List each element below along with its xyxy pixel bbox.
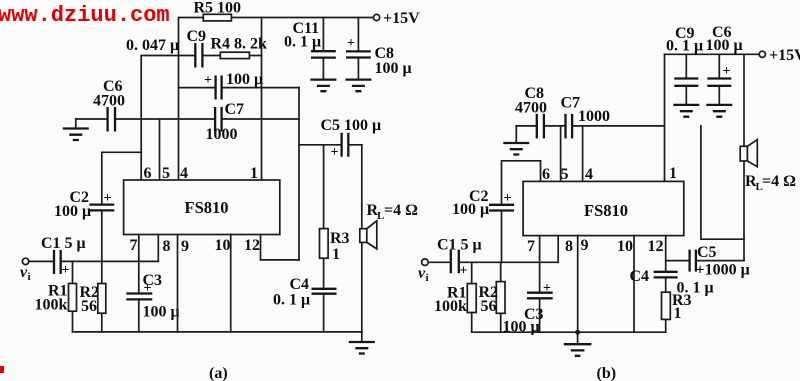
svg-text:10: 10: [617, 238, 633, 255]
wire: C5 output row (a): [299, 144, 362, 146]
svg-text:10: 10: [215, 237, 231, 254]
svg-text:i: i: [426, 272, 429, 284]
svg-text:FS810: FS810: [185, 198, 229, 217]
capacitor C3 (b): [539, 236, 541, 333]
speaker RL (a): [360, 229, 367, 243]
svg-text:+: +: [331, 145, 339, 160]
svg-text:C5: C5: [697, 244, 717, 261]
svg-text:1: 1: [250, 165, 258, 182]
wire: +15V rail (b): [665, 53, 760, 55]
resistor R5: [203, 14, 231, 21]
svg-text:+15V: +15V: [383, 10, 420, 27]
svg-text:5: 5: [561, 166, 569, 183]
capacitor C4 (a): [312, 289, 337, 294]
svg-text:56: 56: [481, 298, 497, 315]
svg-text:C4: C4: [630, 268, 650, 285]
capacitor 100u bootstrap (a): [216, 76, 222, 100]
svg-text:i: i: [28, 271, 31, 283]
svg-text:+: +: [504, 191, 512, 206]
wire: C5 output row (b): [666, 260, 744, 262]
capacitor C3 (a): [138, 235, 140, 332]
wire: pin1 vertical to +15V (b): [664, 54, 666, 181]
svg-text:C5 100 μ: C5 100 μ: [321, 117, 382, 134]
capacitor C5 (a): [342, 133, 349, 157]
capacitor C1 (a): [54, 250, 61, 274]
resistor R4: [220, 52, 249, 58]
svg-text:R5 100: R5 100: [194, 0, 242, 17]
resistor R1 (b): [471, 262, 473, 332]
svg-text:100 μ: 100 μ: [375, 60, 412, 77]
svg-text:1: 1: [332, 246, 340, 263]
ground drop left of C8 (b): [515, 126, 517, 143]
op-amp IC FS810 (a): [124, 180, 280, 235]
wire: pin6 vertical (b): [540, 161, 542, 182]
svg-text:56: 56: [81, 298, 97, 315]
svg-text:4: 4: [180, 165, 188, 182]
wire: C9 row left branch (a): [141, 56, 178, 181]
svg-text:100 μ: 100 μ: [54, 203, 91, 220]
svg-text:9: 9: [181, 238, 189, 255]
resistor R3 (b): [662, 292, 671, 319]
wire: 100u bootstrap row (a): [179, 87, 300, 89]
capacitor C1 (b): [451, 250, 459, 273]
wire: speaker drop (a): [361, 145, 363, 332]
svg-text:1: 1: [669, 165, 677, 182]
wire: ground rail (a): [73, 331, 362, 333]
svg-text:6: 6: [542, 166, 550, 183]
resistor R3 (a): [323, 145, 325, 288]
wire: pin4 vertical (b): [582, 126, 584, 181]
svg-text:4700: 4700: [515, 100, 547, 117]
resistor R2 (b): [500, 262, 502, 332]
ground below C9 (b): [673, 105, 699, 117]
ground below rail (b): [577, 332, 579, 344]
wire: input row (a): [29, 260, 159, 262]
svg-text:7: 7: [527, 238, 535, 255]
svg-text:R3: R3: [330, 230, 350, 247]
svg-text:12: 12: [244, 237, 260, 254]
wire: pin10 to rail (a): [230, 235, 232, 332]
svg-text:0. 1 μ: 0. 1 μ: [273, 292, 310, 309]
svg-text:100k: 100k: [434, 298, 467, 315]
capacitor C4 (b): [654, 272, 678, 278]
wire: input row (b): [429, 261, 558, 263]
svg-text:100 μ: 100 μ: [452, 201, 489, 218]
wire: +15V rail (a): [179, 17, 374, 19]
wire: C8/C7 row (b): [516, 125, 664, 127]
resistor R2 (a): [101, 261, 103, 332]
svg-text:C9: C9: [187, 28, 207, 45]
wire: pin8 drop (a): [157, 235, 159, 262]
svg-text:www.dziuu.com: www.dziuu.com: [0, 3, 170, 28]
wire: bootstrap link (b): [701, 126, 744, 239]
svg-text:0. 1 μ: 0. 1 μ: [666, 38, 703, 55]
wire: speaker drop from rail (b): [743, 54, 745, 260]
svg-text:0. 047 μ: 0. 047 μ: [126, 37, 179, 54]
svg-text:(a): (a): [209, 365, 228, 381]
capacitor C5 (b): [690, 250, 696, 272]
wire: pin9 to rail (b): [577, 236, 579, 333]
svg-text:+: +: [144, 281, 152, 296]
svg-text:=4 Ω: =4 Ω: [762, 173, 796, 190]
svg-text:+: +: [104, 191, 112, 206]
capacitor C9 (b): [685, 54, 687, 104]
svg-text:+: +: [543, 281, 551, 296]
speaker RL (b): [740, 146, 747, 161]
svg-text:FS810: FS810: [584, 201, 628, 220]
node vi input terminal (b): [422, 259, 429, 266]
ground below C6 (b): [706, 105, 732, 117]
ground below C6: [75, 119, 77, 128]
op-amp IC FS810 (b): [523, 181, 684, 235]
svg-text:100 μ: 100 μ: [226, 71, 263, 88]
svg-text:12: 12: [648, 238, 664, 255]
capacitor C7 (b): [566, 114, 573, 138]
node +15V terminal (a): [374, 14, 380, 20]
svg-text:100k: 100k: [35, 297, 68, 314]
capacitor C9: [195, 43, 202, 68]
svg-text:9: 9: [581, 237, 589, 254]
svg-text:C7: C7: [225, 101, 245, 118]
svg-text:+1000 μ: +1000 μ: [696, 262, 750, 279]
svg-text:+: +: [723, 64, 731, 79]
svg-text:7: 7: [130, 237, 138, 254]
svg-text:=4 Ω: =4 Ω: [384, 202, 418, 219]
svg-text:1000: 1000: [206, 126, 238, 143]
wire: pin10 to rail (b): [633, 236, 635, 333]
watermark fragment bottom-left: [0, 366, 4, 373]
wire: pin5 vertical (b): [560, 126, 562, 181]
wire: pin12 elbow to output vertical (a): [261, 235, 300, 260]
svg-text:R4 8. 2k: R4 8. 2k: [211, 36, 268, 53]
wire: pin5 vertical (a): [159, 119, 161, 180]
svg-text:4700: 4700: [93, 93, 125, 110]
capacitor C7: [215, 107, 222, 132]
svg-text:8: 8: [565, 238, 573, 255]
capacitor C6 (b): [718, 54, 720, 104]
ground below C11: [310, 80, 336, 92]
resistor R1 (a): [72, 261, 74, 332]
svg-text:+: +: [204, 73, 212, 88]
wire: ground rail (b): [472, 331, 666, 333]
node vi input terminal (a): [22, 258, 28, 264]
capacitor C2 (b): [502, 161, 541, 262]
node +15V terminal (b): [759, 51, 765, 57]
svg-text:+: +: [347, 36, 355, 51]
wire: pin12 vertical through C4 (b): [665, 236, 667, 333]
wire: left vertical to pin 4 (a): [178, 18, 180, 181]
svg-text:6: 6: [144, 165, 152, 182]
node rail-ground junction (b): [575, 330, 580, 335]
capacitor C11 (a): [322, 18, 324, 80]
ground below C8 (a): [345, 80, 371, 92]
svg-text:5: 5: [162, 165, 170, 182]
wire: C6/C7 ground row (a): [76, 118, 299, 120]
capacitor C8 (b): [537, 114, 544, 138]
capacitor C6: [108, 107, 115, 132]
wire: pin1 vertical (a): [261, 18, 263, 181]
svg-text:0. 1 μ: 0. 1 μ: [284, 34, 321, 51]
wire: pin8 drop (b): [557, 236, 559, 263]
wire: right vertical x=299 (a): [298, 88, 300, 260]
wire: C9 to R4 (a): [179, 55, 262, 57]
svg-text:C1 5 μ: C1 5 μ: [41, 235, 86, 252]
svg-text:4: 4: [585, 166, 593, 183]
svg-text:C4: C4: [290, 276, 310, 293]
svg-text:+: +: [62, 263, 70, 278]
wire: pin9 to rail (a): [177, 235, 179, 332]
ground at rail end (a): [361, 332, 363, 342]
svg-text:100 μ: 100 μ: [143, 304, 180, 321]
svg-text:+: +: [460, 264, 468, 279]
svg-text:1: 1: [674, 305, 682, 322]
capacitor C8 (a): [357, 18, 359, 80]
svg-text:(b): (b): [597, 365, 617, 381]
svg-text:1000: 1000: [578, 108, 610, 125]
svg-text:100 μ: 100 μ: [706, 37, 743, 54]
svg-text:8: 8: [163, 238, 171, 255]
capacitor C2: [102, 152, 141, 261]
svg-text:+15V: +15V: [769, 47, 800, 64]
